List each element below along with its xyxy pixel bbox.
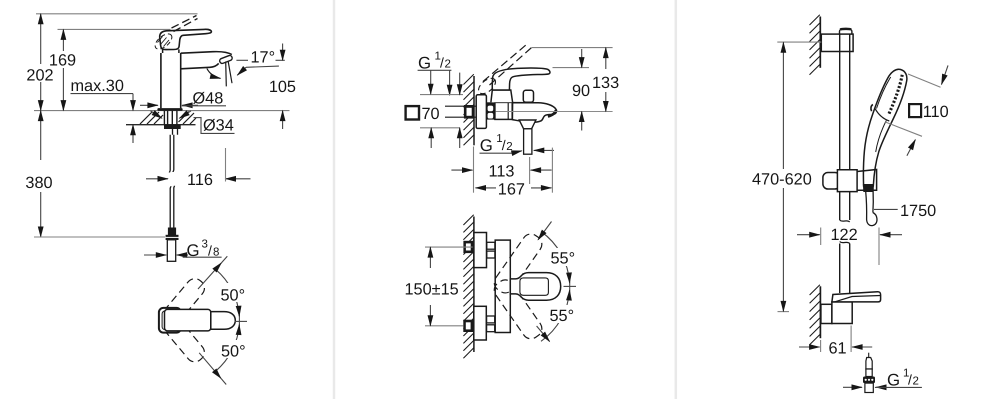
handle top extent line bbox=[553, 67, 590, 69]
dimension 470-620 bbox=[782, 42, 784, 63]
grip end cap bbox=[863, 185, 873, 192]
svg-text:110: 110 bbox=[923, 103, 949, 121]
upper 55 leader bbox=[538, 222, 552, 240]
spout arm top bbox=[181, 52, 232, 55]
lower 50 arc bbox=[216, 325, 240, 372]
glide holder base on wall bbox=[821, 304, 832, 323]
svg-text:116: 116 bbox=[187, 171, 213, 189]
svg-text:2: 2 bbox=[506, 141, 512, 153]
nut tail bbox=[173, 129, 178, 135]
label O34 box bbox=[201, 117, 235, 133]
61 left extension bbox=[820, 340, 822, 352]
grip inner line bbox=[876, 121, 887, 153]
wall hatching bbox=[464, 74, 474, 145]
lower nut bbox=[487, 316, 495, 323]
svg-text:2: 2 bbox=[445, 59, 451, 71]
svg-text:169: 169 bbox=[49, 52, 76, 70]
raised handle pivot dashed ellipse bbox=[152, 31, 174, 52]
upper 50 arc bbox=[216, 269, 240, 316]
label 55 upper bbox=[549, 248, 579, 266]
spout tip extension line bbox=[551, 148, 553, 193]
outlet centre extension line bbox=[529, 157, 531, 184]
61 right extension bbox=[850, 326, 852, 353]
spout aerator tip bbox=[219, 55, 233, 64]
lower union square bbox=[463, 320, 473, 332]
shower head and grip bbox=[863, 69, 906, 186]
380 bottom extent line bbox=[34, 236, 165, 238]
150 upper extent bbox=[425, 246, 473, 248]
head inner rim bbox=[877, 77, 891, 109]
knurled nut bbox=[863, 377, 875, 384]
110 lower extension line bbox=[885, 122, 922, 136]
upper nut bbox=[487, 242, 495, 249]
max.30 arrow down to counter bbox=[132, 94, 134, 111]
rail break squiggles bbox=[840, 220, 850, 222]
glide holder clamp bbox=[832, 302, 852, 324]
pipe compression fitting bbox=[168, 228, 176, 236]
70 bottom extent bbox=[420, 127, 460, 129]
dashed handle rotated up 50deg bbox=[158, 275, 208, 329]
470-620 bottom extent bbox=[778, 311, 790, 313]
dimension 380 line bbox=[40, 111, 42, 160]
head button bbox=[871, 105, 873, 112]
glide holder tray arm bbox=[832, 292, 881, 302]
svg-text:max.30: max.30 bbox=[71, 77, 124, 95]
shower outlet tube bbox=[524, 129, 532, 154]
handle tip cross bbox=[564, 285, 577, 287]
supply pipe upper segment bbox=[169, 135, 173, 173]
mixer centreline and extent bbox=[496, 111, 613, 113]
dimension 116 bbox=[146, 178, 168, 180]
svg-text:55°: 55° bbox=[551, 250, 576, 268]
swing arc arrow left of stream bbox=[207, 69, 221, 79]
G1/2 outlet arrows bbox=[512, 151, 522, 153]
upper inlet block bbox=[474, 233, 487, 268]
shower outlet funnel bbox=[519, 120, 536, 129]
lower wall hatching bbox=[810, 285, 820, 345]
counter hatching bbox=[140, 112, 196, 125]
inlet union square on wall bbox=[464, 105, 474, 119]
raised handle dashed line 2 bbox=[174, 19, 198, 32]
raised handle dashed lines bbox=[483, 45, 527, 82]
label 50 upper bbox=[221, 283, 249, 302]
bracket release button bbox=[840, 29, 852, 34]
supply pipe lower segment bbox=[170, 186, 174, 228]
upper wall hatching bbox=[810, 15, 820, 75]
70 top extent bbox=[420, 94, 463, 96]
150 lower extent bbox=[425, 325, 464, 327]
dimension 169 line bbox=[62, 29, 64, 51]
svg-text:380: 380 bbox=[25, 174, 52, 192]
extent line 169 bbox=[58, 28, 171, 30]
dimension 90 bbox=[581, 49, 583, 68]
label 55 lower bbox=[548, 305, 578, 323]
wall face extension line down bbox=[473, 147, 475, 193]
extent line top (202) bbox=[36, 13, 198, 15]
svg-text:/: / bbox=[502, 137, 506, 153]
svg-text:G: G bbox=[480, 136, 493, 155]
110 upper arrow bbox=[942, 65, 949, 84]
lower inlet block bbox=[474, 306, 487, 340]
lower 50 leader bbox=[199, 353, 221, 379]
svg-text:Ø34: Ø34 bbox=[203, 117, 234, 135]
rail lower segment bbox=[839, 244, 841, 294]
dimension O48 arrows bbox=[140, 104, 158, 106]
mounting shank bbox=[164, 111, 177, 125]
hose end curl bbox=[867, 213, 877, 226]
inlet thread arrows bbox=[459, 73, 461, 95]
svg-text:133: 133 bbox=[592, 74, 619, 92]
upper wall line bbox=[819, 17, 821, 68]
dimension 133 bbox=[605, 48, 607, 69]
union nut (dark with facets) bbox=[487, 102, 495, 119]
water stream line 1 bbox=[225, 62, 228, 87]
rail mid segment bbox=[839, 192, 841, 221]
svg-text:/: / bbox=[440, 55, 444, 71]
centre cross bbox=[235, 320, 248, 322]
counter top line bbox=[34, 110, 290, 112]
svg-text:17°: 17° bbox=[251, 49, 276, 67]
svg-text:/: / bbox=[208, 243, 212, 259]
lower 55 leader bbox=[537, 326, 550, 342]
cartridge dome bbox=[491, 90, 513, 102]
svg-text:90: 90 bbox=[572, 82, 590, 100]
pivot hatch marks bbox=[158, 37, 170, 47]
svg-text:55°: 55° bbox=[550, 307, 575, 325]
handle base (top view) bbox=[159, 308, 181, 333]
handle lever bbox=[160, 29, 212, 49]
svg-text:2: 2 bbox=[913, 376, 919, 388]
spout tip lip bbox=[548, 110, 556, 117]
faucet neck/cartridge bbox=[163, 49, 179, 53]
dimension 61 arrows bbox=[799, 346, 820, 348]
470-620 top extent bbox=[777, 41, 821, 43]
adapter cone bbox=[866, 358, 872, 370]
body column bbox=[495, 240, 510, 332]
122 left extension bbox=[820, 228, 822, 246]
panel divider 2 bbox=[675, 0, 678, 399]
spout underside bbox=[181, 63, 219, 68]
wall hatching bbox=[463, 215, 473, 359]
110 upper extension line bbox=[908, 74, 941, 87]
dimension 105 line bbox=[282, 44, 284, 61]
G1/2 arrows bbox=[843, 386, 862, 388]
110 lower arrow bbox=[907, 140, 916, 156]
spout bbox=[512, 103, 556, 123]
dimension 113 bbox=[451, 169, 472, 171]
lower dashed handle bbox=[491, 277, 545, 343]
122 right extension bbox=[878, 228, 880, 266]
svg-text:70: 70 bbox=[422, 105, 440, 123]
mixer body bbox=[495, 102, 512, 119]
handle tip (top view) bbox=[211, 312, 236, 330]
hose bbox=[865, 192, 868, 220]
dashed handle rotated down 50deg bbox=[158, 311, 208, 365]
17deg reference line with label bbox=[236, 59, 248, 61]
svg-text:50°: 50° bbox=[221, 287, 246, 305]
raised handle dashed line 1 bbox=[172, 16, 197, 29]
label 50 lower bbox=[221, 340, 249, 358]
head nozzle face bbox=[889, 75, 903, 115]
svg-text:61: 61 bbox=[829, 340, 847, 358]
dimension 167 bbox=[476, 187, 497, 189]
upper 50 leader bbox=[198, 263, 222, 289]
handle lever bbox=[492, 68, 550, 90]
svg-text:50°: 50° bbox=[221, 343, 246, 361]
handle lever body (top view) bbox=[165, 309, 211, 331]
wall face line bbox=[473, 76, 475, 145]
shank nut below counter bbox=[164, 125, 181, 129]
water stream line 2 bbox=[228, 62, 232, 84]
faucet body bbox=[161, 53, 181, 108]
svg-text:/: / bbox=[908, 372, 912, 388]
max.30 arrow up to counter bottom bbox=[132, 125, 134, 143]
panel divider 1 bbox=[333, 0, 336, 399]
upper dashed handle bbox=[491, 231, 545, 297]
top extent line bbox=[532, 47, 613, 49]
head bottom cap bbox=[875, 108, 889, 121]
tray arm inner line bbox=[835, 296, 881, 302]
svg-text:Ø48: Ø48 bbox=[193, 90, 224, 108]
svg-text:1750: 1750 bbox=[900, 202, 936, 220]
adapter body bbox=[866, 369, 872, 377]
inlet pipe stub through wall bbox=[445, 105, 476, 107]
svg-text:470-620: 470-620 bbox=[752, 170, 812, 188]
svg-text:G: G bbox=[887, 370, 900, 389]
raised handle pivot dashed ellipse bbox=[476, 75, 498, 96]
G1/2 leader arrow to inlet bbox=[449, 70, 451, 95]
dimension 202 line bbox=[40, 14, 42, 64]
17deg slanted leader with arrow bbox=[246, 66, 279, 67]
svg-text:113: 113 bbox=[489, 162, 515, 180]
label O34 leader arrows bbox=[151, 111, 163, 118]
G1/2 adapter tip bbox=[868, 353, 870, 358]
lower 55 arc bbox=[541, 290, 570, 341]
adapter tail bbox=[865, 383, 873, 392]
upper union square bbox=[463, 241, 473, 253]
70 outside arrows bbox=[430, 70, 432, 94]
upper 55 arc bbox=[541, 232, 570, 284]
svg-text:150±15: 150±15 bbox=[405, 281, 459, 299]
svg-text:105: 105 bbox=[269, 78, 296, 96]
top rail bracket bbox=[821, 34, 853, 51]
label 1750 leader bbox=[874, 208, 898, 210]
label square70 bbox=[406, 106, 419, 119]
threaded tailpiece bbox=[167, 240, 175, 261]
rail upper segment bbox=[839, 34, 841, 170]
diverter knob bbox=[523, 90, 533, 102]
wall face line bbox=[473, 217, 475, 353]
pipe nut bbox=[166, 235, 179, 240]
svg-text:122: 122 bbox=[831, 226, 858, 244]
label square110 bbox=[909, 104, 921, 117]
dimension 150+-15 bbox=[429, 247, 431, 268]
handle front view bbox=[510, 273, 560, 301]
svg-text:167: 167 bbox=[498, 180, 525, 198]
G3/8 arrows bbox=[144, 254, 166, 256]
svg-text:3: 3 bbox=[202, 239, 208, 251]
dimension 122 arrows bbox=[797, 234, 820, 236]
counter bottom line bbox=[126, 124, 196, 126]
lower wall line bbox=[819, 286, 821, 338]
hand shower holder on rail bbox=[823, 173, 840, 190]
wall flange bbox=[476, 95, 486, 129]
